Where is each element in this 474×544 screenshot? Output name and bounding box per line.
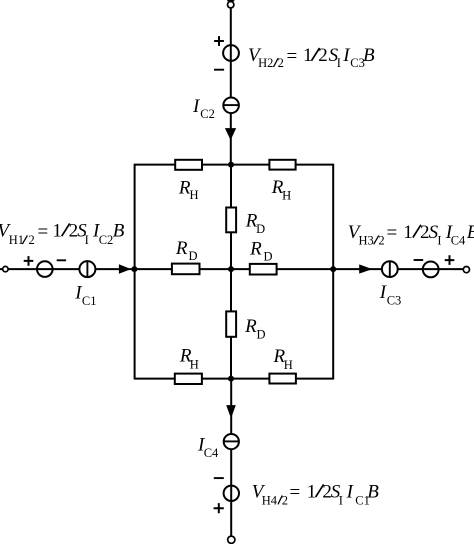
terminal bottom <box>228 536 235 543</box>
svg-text:H: H <box>284 358 293 372</box>
wire bottom box horizontal <box>135 378 334 380</box>
svg-text:R: R <box>249 238 262 259</box>
stub above top terminal <box>227 0 234 1</box>
wire bottom vertical branch <box>230 379 232 536</box>
svg-text:C4: C4 <box>451 233 466 247</box>
resistor RD vertical-upper <box>226 208 236 233</box>
svg-text:I: I <box>346 482 355 503</box>
svg-text:I: I <box>337 56 341 70</box>
svg-text:=: = <box>387 223 398 244</box>
resistor RD vertical-lower <box>226 311 236 336</box>
wire middle horizontal row <box>0 268 463 270</box>
label RD middle-right <box>249 238 272 263</box>
resistor RD middle-left <box>172 264 200 275</box>
svg-text:2: 2 <box>318 45 328 66</box>
svg-text:H2: H2 <box>258 56 273 70</box>
svg-text:2: 2 <box>29 233 35 247</box>
svg-text:C3: C3 <box>387 294 402 308</box>
svg-text:1: 1 <box>303 45 313 66</box>
svg-text:D: D <box>257 327 266 341</box>
svg-text:H1: H1 <box>9 233 24 247</box>
plus sign right <box>445 255 455 265</box>
junction node right <box>330 266 336 272</box>
svg-text:D: D <box>189 249 198 263</box>
svg-text:H: H <box>190 188 199 202</box>
junction node top <box>228 162 234 168</box>
resistor RH bottom-right <box>269 374 296 384</box>
svg-text:=: = <box>290 482 301 503</box>
svg-text:=: = <box>38 221 49 242</box>
svg-text:1: 1 <box>307 482 317 503</box>
terminal left <box>3 266 8 271</box>
wire top vertical branch <box>230 1 232 165</box>
voltage source VH1/2 <box>37 261 53 277</box>
svg-text:H4: H4 <box>262 494 278 508</box>
junction node bottom <box>228 376 234 382</box>
arrow IC2 down <box>225 128 236 140</box>
label equation VH2/2 = 1/2 SI IC3 B <box>248 45 375 70</box>
svg-text:H: H <box>282 188 291 202</box>
svg-text:C4: C4 <box>204 446 219 460</box>
label IC4 <box>197 435 219 461</box>
svg-text:2: 2 <box>282 494 288 508</box>
svg-text:B: B <box>113 221 125 242</box>
svg-text:I: I <box>437 233 441 247</box>
label equation VH3/2 = 1/2 SI IC4 B <box>348 222 474 247</box>
label equation VH4/2 = 1/2 SI IC1 B <box>252 482 379 508</box>
resistor RH top-right <box>269 160 295 170</box>
svg-text:C2: C2 <box>99 233 114 247</box>
junction node center <box>228 266 234 272</box>
svg-text:2: 2 <box>278 56 284 70</box>
minus sign right <box>414 259 424 261</box>
svg-text:R: R <box>244 316 257 337</box>
svg-text:2: 2 <box>378 233 384 247</box>
svg-text:B: B <box>367 482 379 503</box>
svg-text:D: D <box>264 249 273 263</box>
resistor RD middle-right <box>250 264 277 275</box>
current source IC4 <box>224 434 239 449</box>
svg-text:1: 1 <box>52 221 62 242</box>
wire right box vertical <box>332 164 334 380</box>
label IC1 <box>74 282 96 307</box>
arrow IC3 right <box>359 264 372 273</box>
arrow IC4 down <box>226 405 236 418</box>
minus sign top <box>214 69 224 71</box>
current source IC1 <box>79 261 95 277</box>
minus sign left <box>57 259 66 261</box>
current source IC2 <box>223 98 239 114</box>
label equation VH1/2 = 1/2 SI IC2 B <box>0 221 125 248</box>
label RH bottom-right <box>273 346 293 372</box>
svg-text:B: B <box>467 222 474 243</box>
svg-text:R: R <box>175 238 188 259</box>
svg-text:I: I <box>339 494 343 508</box>
wire center vertical <box>230 165 232 379</box>
plus sign bottom <box>214 503 224 513</box>
label RH top-right <box>271 177 291 202</box>
svg-text:C2: C2 <box>200 107 215 121</box>
plus sign left <box>24 256 34 266</box>
junction node left <box>131 266 137 272</box>
arrow IC1 right <box>119 264 131 273</box>
svg-text:I: I <box>85 233 89 247</box>
resistor RH bottom-left <box>175 374 202 384</box>
svg-text:H: H <box>190 358 199 372</box>
label RD middle-left <box>175 238 198 263</box>
wire left box vertical <box>134 164 136 380</box>
voltage source VH4/2 <box>224 486 239 501</box>
svg-text:H3: H3 <box>359 233 374 247</box>
label IC3 <box>379 282 401 308</box>
voltage source VH3/2 <box>423 262 439 278</box>
svg-text:B: B <box>363 45 375 66</box>
label RH top-left <box>178 177 199 202</box>
terminal right <box>463 267 469 273</box>
voltage source VH2/2 <box>223 45 239 61</box>
svg-text:D: D <box>256 222 265 236</box>
label RH bottom-left <box>179 346 199 372</box>
terminal top <box>228 1 234 7</box>
current source IC3 <box>382 261 398 277</box>
svg-text:C1: C1 <box>82 294 97 308</box>
svg-text:=: = <box>287 46 298 67</box>
label RD vertical-upper <box>245 210 265 236</box>
label RD vertical-lower <box>244 316 265 341</box>
svg-text:1: 1 <box>403 222 413 243</box>
minus sign bottom <box>214 477 224 479</box>
plus sign top <box>214 36 224 46</box>
wire top box horizontal <box>135 164 334 166</box>
resistor RH top-left <box>175 160 202 170</box>
label IC2 <box>192 96 215 121</box>
